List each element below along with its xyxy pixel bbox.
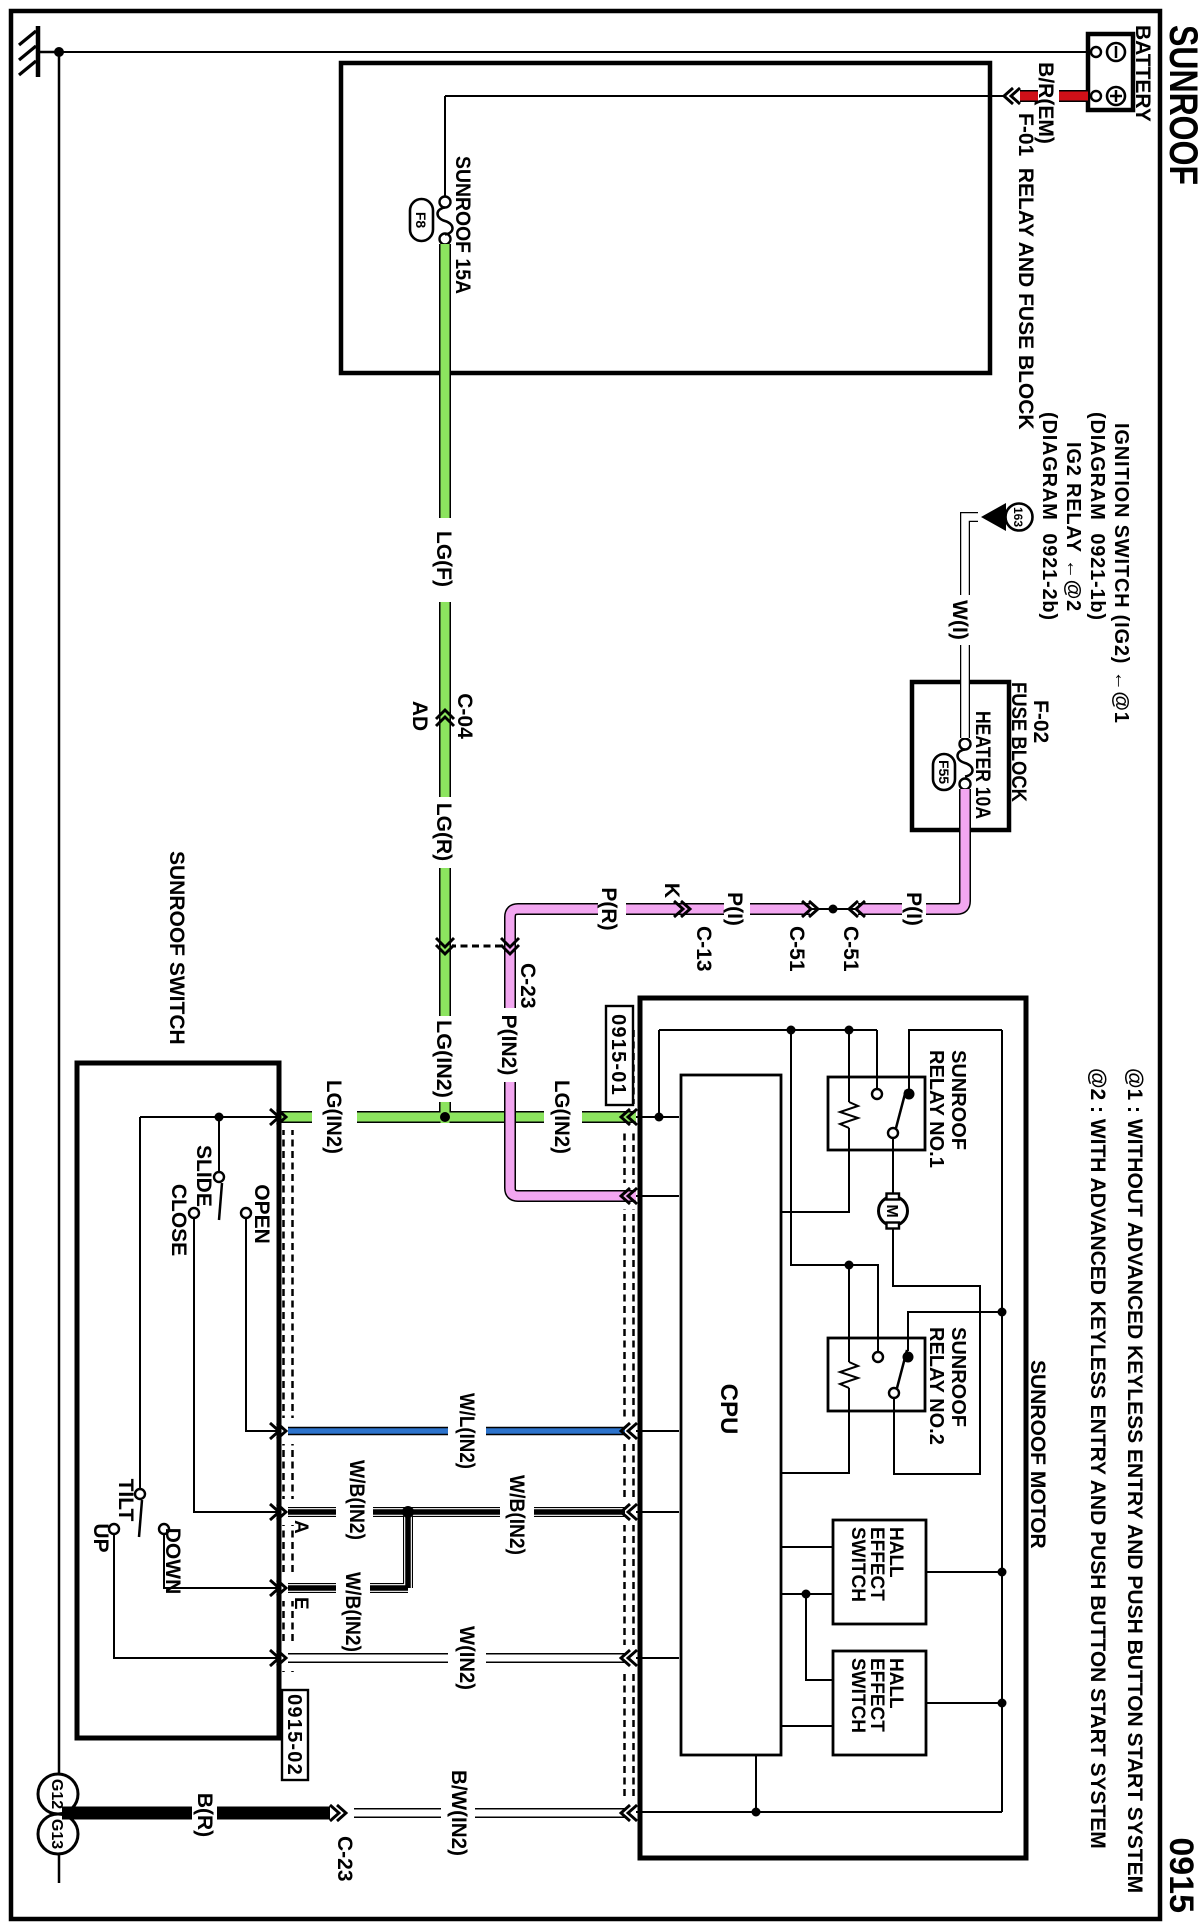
svg-text:G12: G12 — [48, 1779, 65, 1809]
svg-text:W(IN2): W(IN2) — [455, 1626, 478, 1690]
svg-text:EFFECT: EFFECT — [866, 1527, 887, 1601]
svg-text:SWITCH: SWITCH — [847, 1658, 868, 1733]
svg-text:@2 : WITH ADVANCED KEYLESS ENT: @2 : WITH ADVANCED KEYLESS ENTRY AND PUS… — [1086, 1068, 1109, 1849]
svg-text:IG2 RELAY ←@2: IG2 RELAY ←@2 — [1062, 442, 1084, 612]
svg-text:@1 : WITHOUT ADVANCED KEYLESS: @1 : WITHOUT ADVANCED KEYLESS ENTRY AND … — [1123, 1068, 1146, 1893]
svg-text:CLOSE: CLOSE — [167, 1184, 190, 1256]
svg-text:W(I): W(I) — [948, 600, 971, 640]
svg-text:C-04: C-04 — [453, 693, 476, 739]
svg-text:P(R): P(R) — [597, 887, 620, 930]
svg-text:C-13: C-13 — [692, 926, 715, 972]
svg-text:C-23: C-23 — [516, 963, 539, 1009]
svg-text:0915: 0915 — [1162, 1837, 1200, 1913]
svg-text:LG(F): LG(F) — [432, 531, 455, 587]
svg-text:P(IN2): P(IN2) — [497, 1015, 520, 1076]
svg-text:SWITCH: SWITCH — [847, 1527, 868, 1602]
svg-text:M: M — [883, 1204, 900, 1217]
svg-text:F-01 RELAY AND FUSE BLOCK: F-01 RELAY AND FUSE BLOCK — [1014, 113, 1037, 430]
svg-text:SUNROOF: SUNROOF — [1161, 25, 1202, 185]
svg-text:HALL: HALL — [885, 1658, 906, 1709]
svg-text:EFFECT: EFFECT — [866, 1658, 887, 1732]
svg-text:HEATER 10A: HEATER 10A — [971, 711, 994, 819]
svg-text:FUSE BLOCK: FUSE BLOCK — [1007, 682, 1030, 802]
svg-text:0915-01: 0915-01 — [607, 1014, 629, 1096]
svg-text:F8: F8 — [413, 212, 429, 229]
svg-text:C-51: C-51 — [785, 926, 808, 972]
svg-text:B/R(EM): B/R(EM) — [1034, 62, 1057, 144]
svg-text:B(R): B(R) — [193, 1793, 216, 1837]
svg-text:P(I): P(I) — [902, 892, 925, 926]
svg-text:163: 163 — [1011, 507, 1025, 527]
svg-text:K: K — [660, 883, 683, 898]
svg-text:C-51: C-51 — [839, 926, 862, 972]
svg-text:F55: F55 — [936, 760, 952, 784]
svg-text:DOWN: DOWN — [161, 1528, 184, 1595]
svg-text:AD: AD — [408, 701, 431, 731]
svg-text:W/L(IN2): W/L(IN2) — [455, 1393, 478, 1469]
svg-text:LG(IN2): LG(IN2) — [322, 1080, 345, 1154]
svg-text:TILT: TILT — [114, 1479, 137, 1522]
svg-text:W/B(IN2): W/B(IN2) — [345, 1460, 368, 1540]
svg-text:LG(IN2): LG(IN2) — [550, 1080, 573, 1154]
svg-text:A: A — [290, 1520, 311, 1534]
svg-text:(DIAGRAM 0921-1b): (DIAGRAM 0921-1b) — [1086, 412, 1108, 621]
svg-text:SUNROOF 15A: SUNROOF 15A — [451, 156, 474, 294]
svg-text:SUNROOF: SUNROOF — [947, 1050, 969, 1150]
svg-text:W/B(IN2): W/B(IN2) — [341, 1572, 364, 1652]
svg-text:OPEN: OPEN — [250, 1184, 273, 1244]
svg-text:E: E — [290, 1597, 311, 1610]
svg-text:RELAY NO.2: RELAY NO.2 — [925, 1327, 947, 1445]
svg-text:P(I): P(I) — [723, 892, 746, 926]
svg-text:W/B(IN2): W/B(IN2) — [505, 1475, 528, 1555]
svg-text:LG(IN2): LG(IN2) — [432, 1020, 455, 1098]
svg-text:B/W(IN2): B/W(IN2) — [447, 1770, 470, 1856]
svg-text:0915-02: 0915-02 — [283, 1694, 305, 1776]
svg-text:G13: G13 — [48, 1819, 65, 1849]
svg-text:CPU: CPU — [715, 1384, 742, 1435]
svg-text:(DIAGRAM 0921-2b): (DIAGRAM 0921-2b) — [1038, 412, 1060, 621]
svg-text:SUNROOF SWITCH: SUNROOF SWITCH — [165, 851, 188, 1045]
svg-text:IGNITION SWITCH (IG2) ←@1: IGNITION SWITCH (IG2) ←@1 — [1110, 423, 1132, 724]
svg-text:SUNROOF: SUNROOF — [947, 1327, 969, 1427]
svg-text:F-02: F-02 — [1029, 700, 1052, 743]
svg-text:HALL: HALL — [885, 1527, 906, 1578]
svg-text:RELAY NO.1: RELAY NO.1 — [925, 1050, 947, 1168]
svg-text:SUNROOF MOTOR: SUNROOF MOTOR — [1026, 1360, 1049, 1549]
svg-text:BATTERY: BATTERY — [1131, 25, 1154, 122]
svg-text:LG(R): LG(R) — [432, 803, 455, 861]
svg-text:UP: UP — [89, 1523, 112, 1552]
svg-text:SLIDE: SLIDE — [192, 1145, 215, 1207]
svg-text:C-23: C-23 — [333, 1836, 356, 1882]
